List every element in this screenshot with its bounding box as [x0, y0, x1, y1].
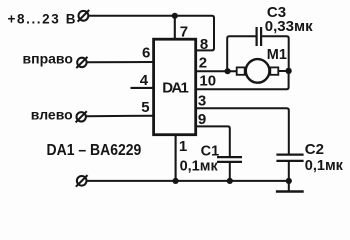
- motor M1 body: [246, 59, 270, 83]
- ground symbol stem: [288, 181, 290, 192]
- svg-text:5: 5: [141, 99, 149, 116]
- junction node C2 on ground rail: [286, 178, 292, 184]
- terminal X1 +8...23 V power input: [78, 10, 90, 22]
- svg-text:10: 10: [199, 72, 216, 89]
- svg-text:влево: влево: [31, 106, 73, 122]
- wire C3 left branch: [227, 36, 255, 69]
- svg-text:6: 6: [142, 44, 150, 61]
- svg-text:0,1мк: 0,1мк: [305, 158, 344, 174]
- svg-text:0,33мк: 0,33мк: [265, 18, 313, 35]
- wire motor right brush to junction: [278, 70, 288, 72]
- ground symbol bar: [276, 190, 304, 193]
- wire pin 2 to motor left brush: [196, 70, 238, 72]
- junction node pin 1 on ground rail: [173, 178, 179, 184]
- svg-text:2: 2: [199, 54, 207, 71]
- junction node motor right / C3 right / pin 10: [285, 68, 291, 74]
- svg-text:М1: М1: [267, 47, 287, 63]
- IC DA1 (motor driver BA6229): [154, 39, 196, 135]
- svg-text:1: 1: [179, 138, 187, 155]
- svg-text:0,1мк: 0,1мк: [180, 159, 219, 175]
- svg-text:3: 3: [198, 92, 206, 109]
- motor M1 left brush: [237, 67, 245, 74]
- wire C3 right branch: [262, 36, 289, 69]
- svg-text:+8...23 В: +8...23 В: [8, 12, 78, 27]
- wire pin 3 to C2: [196, 108, 289, 153]
- wire pin 1 to ground rail: [175, 135, 177, 181]
- svg-text:C1: C1: [201, 144, 220, 160]
- junction node motor left / C3 left: [225, 68, 231, 74]
- wire pin 7: [174, 16, 176, 39]
- capacitor C3 plates: [257, 27, 262, 46]
- capacitor C2 plates: [276, 155, 303, 161]
- wire C2 bottom to ground rail: [288, 161, 290, 181]
- wire pin 9 to C1: [196, 126, 230, 156]
- svg-text:C2: C2: [305, 141, 324, 158]
- junction node pin 7 on supply rail: [172, 13, 178, 19]
- wire top supply rail from X1 to pin 8 corner: [89, 16, 214, 51]
- capacitor C1 plates: [217, 157, 242, 162]
- wire C1 bottom to ground rail: [229, 162, 231, 181]
- terminal X2 vpravo input: [76, 57, 87, 68]
- svg-text:DA1: DA1: [162, 80, 188, 97]
- terminal X4 common/ground: [76, 175, 88, 187]
- junction node C1 on ground rail: [227, 178, 233, 184]
- svg-text:DA1 – BA6229: DA1 – BA6229: [47, 141, 142, 159]
- wire pin 5 from X3 to IC: [86, 115, 154, 118]
- pin 4 stub (unconnected): [131, 87, 154, 89]
- svg-text:8: 8: [200, 36, 208, 53]
- terminal X3 vlevo input: [76, 111, 87, 122]
- wire bottom ground rail: [87, 180, 289, 182]
- motor M1 right brush: [270, 67, 278, 74]
- svg-text:4: 4: [140, 72, 149, 89]
- svg-text:9: 9: [198, 111, 206, 128]
- svg-text:вправо: вправо: [23, 51, 73, 67]
- wire pin 10 to motor right junction: [196, 71, 289, 89]
- wire pin 6 from X2 to IC: [86, 61, 153, 63]
